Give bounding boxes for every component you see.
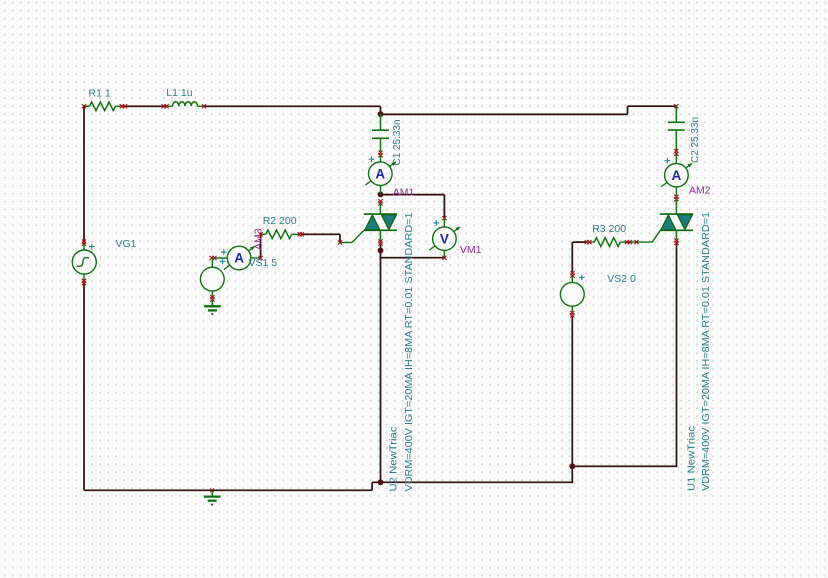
- pin L1 right: [202, 104, 206, 108]
- pins C1 bottom: [378, 151, 382, 158]
- node bottom center junction: [378, 479, 384, 485]
- pin R1 left: [82, 104, 86, 108]
- plus AM1: [369, 157, 375, 163]
- svg-text:VDRM=400V IGT=20MA IH=8MA RT=0: VDRM=400V IGT=20MA IH=8MA RT=0.01 STANDA…: [403, 212, 415, 491]
- label R3 200: [592, 223, 626, 235]
- svg-text:R1 1: R1 1: [89, 88, 111, 100]
- wire top-right horizontal: [628, 105, 677, 107]
- label R2 200: [263, 215, 297, 227]
- label AM1: [393, 187, 415, 199]
- svg-text:L1 1u: L1 1u: [166, 87, 192, 99]
- resistor R2: [261, 230, 299, 239]
- pin U1 gate: [634, 240, 638, 244]
- resistor R1: [84, 102, 122, 111]
- wire U1 gate: [632, 230, 660, 242]
- plus AM3: [221, 249, 227, 255]
- node AM1 bottom junction: [378, 192, 384, 198]
- label AM3: [253, 228, 265, 250]
- pins AM3 left: [210, 256, 217, 260]
- wire VG1 to bottom-left corner: [83, 283, 85, 491]
- wire AM1 junction to VM1: [381, 195, 445, 219]
- label VS1 5: [249, 257, 278, 269]
- label VS2 0: [607, 273, 636, 285]
- wire R2 to U2 gate: [302, 234, 341, 242]
- svg-text:VS2 0: VS2 0: [607, 273, 636, 285]
- source VS2: [560, 276, 584, 314]
- pins U1 bottom: [674, 239, 678, 246]
- label U2 NewTriac: [387, 427, 399, 492]
- wire right step up: [627, 106, 629, 114]
- svg-text:VG1: VG1: [116, 238, 137, 250]
- pin C2 top: [674, 104, 678, 108]
- label U2 params: [403, 212, 415, 491]
- pins C2 bottom: [674, 149, 678, 156]
- wire AM3 to R2: [260, 234, 262, 258]
- triac U1: [660, 199, 693, 241]
- pins VG1 bottom: [82, 279, 86, 285]
- pins R1 right: [120, 104, 127, 108]
- inductor L1: [167, 102, 204, 107]
- label VG1: [116, 238, 137, 250]
- svg-text:C1 25.33n: C1 25.33n: [391, 119, 403, 165]
- svg-text:A: A: [375, 166, 385, 181]
- node bottom right junction: [569, 463, 575, 469]
- svg-text:A: A: [234, 251, 244, 266]
- wire left vertical (VG1 branch): [83, 106, 85, 242]
- pins U2 bottom: [378, 239, 382, 245]
- label C2 25.33n: [689, 117, 701, 163]
- pins VS1 bottom: [210, 295, 214, 302]
- wire VS2 corner to R3: [572, 242, 587, 273]
- node below U2 junction: [378, 248, 384, 254]
- svg-text:VDRM=400V IGT=20MA IH=8MA RT=0: VDRM=400V IGT=20MA IH=8MA RT=0.01 STANDA…: [700, 212, 712, 491]
- svg-text:C2 25.33n: C2 25.33n: [689, 117, 701, 163]
- source VS1: [200, 258, 224, 297]
- plus VS2: [579, 275, 585, 281]
- svg-text:VM1: VM1: [460, 244, 482, 256]
- pin R2 left: [259, 232, 263, 236]
- pins R3 left: [585, 240, 592, 244]
- svg-text:R2 200: R2 200: [263, 215, 297, 227]
- label R1 1: [89, 88, 111, 100]
- pins L1 left: [162, 104, 169, 108]
- wire bottom middle horizontal: [372, 481, 573, 483]
- wire bottom step up: [371, 482, 373, 490]
- pins R3 right: [625, 240, 632, 244]
- plus AM2: [665, 158, 671, 164]
- pin ground bottom: [210, 489, 214, 493]
- svg-text:AM3: AM3: [253, 228, 265, 250]
- svg-text:V: V: [440, 231, 449, 246]
- wire middle horizontal: [381, 113, 628, 115]
- pin VM1 bottom: [442, 256, 446, 260]
- wire VM1 bottom to main vertical: [381, 257, 445, 259]
- wire U2 gate: [340, 230, 364, 242]
- ammeter AM1: [365, 155, 396, 194]
- resistor R3: [590, 238, 633, 247]
- wire R1-L1: [122, 105, 167, 107]
- pin AM3 right: [259, 256, 263, 260]
- svg-text:U1 NewTriac: U1 NewTriac: [685, 426, 697, 491]
- svg-text:R3 200: R3 200: [592, 223, 626, 235]
- svg-text:VS1 5: VS1 5: [249, 257, 278, 269]
- pins VS2 bottom: [570, 311, 574, 318]
- pins AM2 bottom: [674, 195, 678, 202]
- capacitor C1: [372, 114, 389, 153]
- wire right vertical up to U1: [676, 243, 678, 467]
- label U1 NewTriac: [685, 426, 697, 491]
- wire VS2 lower vertical: [571, 316, 573, 483]
- svg-text:AM1: AM1: [393, 187, 415, 199]
- voltmeter VM1: [429, 218, 460, 258]
- svg-text:U2 NewTriac: U2 NewTriac: [387, 427, 399, 492]
- svg-text:AM2: AM2: [689, 185, 711, 197]
- label AM2: [689, 185, 711, 197]
- pin U2 gate: [338, 240, 342, 244]
- label U1 params: [700, 212, 712, 491]
- label C1 25.33n: [391, 119, 403, 165]
- pins AM1 bottom: [378, 199, 382, 205]
- ammeter AM3: [214, 246, 261, 270]
- capacitor C2: [668, 106, 685, 151]
- triac U2: [364, 203, 397, 241]
- node top center junction: [378, 111, 384, 117]
- pins R2 right: [298, 232, 304, 236]
- plus VG1: [89, 244, 95, 250]
- ground VS1: [204, 300, 221, 316]
- wire center step down: [380, 106, 382, 114]
- wire L1 to center: [204, 105, 381, 107]
- pins VS2 top: [570, 271, 574, 278]
- wire main vertical under U2: [380, 244, 382, 483]
- pins VG1 top: [82, 240, 86, 246]
- wire top-left lead: [84, 105, 90, 107]
- wire bottom branch to U1: [572, 465, 676, 467]
- plus VM1: [434, 220, 440, 226]
- pin VM1 top: [442, 216, 446, 220]
- ground bottom: [204, 490, 221, 505]
- generator VG1: [72, 244, 96, 281]
- ammeter AM2: [661, 154, 692, 196]
- svg-text:A: A: [672, 168, 682, 183]
- wire bottom-left horizontal: [84, 489, 372, 491]
- plus VS1: [220, 259, 226, 265]
- label VM1: [460, 244, 482, 256]
- label L1 1u: [166, 87, 192, 99]
